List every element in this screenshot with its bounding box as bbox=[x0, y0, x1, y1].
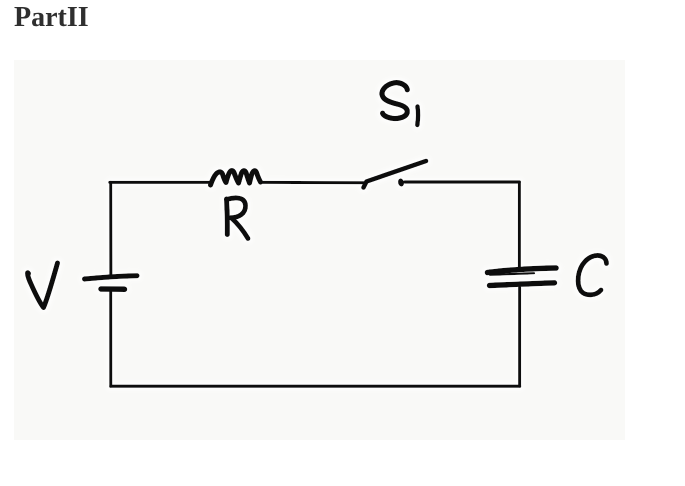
switch S1 blade bbox=[364, 161, 427, 188]
panel background bbox=[14, 60, 625, 440]
battery V long plate bbox=[85, 276, 138, 279]
label R bbox=[224, 199, 230, 235]
label S subscript 1 bbox=[415, 107, 420, 126]
capacitor C top plate bbox=[488, 268, 557, 273]
capacitor C bottom plate bbox=[490, 283, 555, 286]
label S bbox=[382, 83, 407, 119]
battery V short plate bbox=[101, 286, 125, 292]
heading PartII bbox=[14, 2, 89, 34]
wire right vertical lower bbox=[518, 288, 521, 387]
wire right vertical upper bbox=[518, 182, 521, 267]
label C bbox=[578, 255, 606, 294]
wire left vertical lower bbox=[109, 291, 112, 387]
switch S1 contact dot bbox=[397, 178, 405, 187]
resistor R (zigzag scribble) bbox=[211, 171, 261, 186]
wire left vertical upper bbox=[109, 182, 112, 275]
wire bottom horizontal bbox=[111, 385, 520, 388]
wire top-right (switch to corner) bbox=[405, 181, 520, 184]
wire top-left horizontal bbox=[110, 181, 211, 184]
wire top-middle (resistor to switch) bbox=[261, 181, 366, 184]
label V bbox=[27, 263, 57, 308]
